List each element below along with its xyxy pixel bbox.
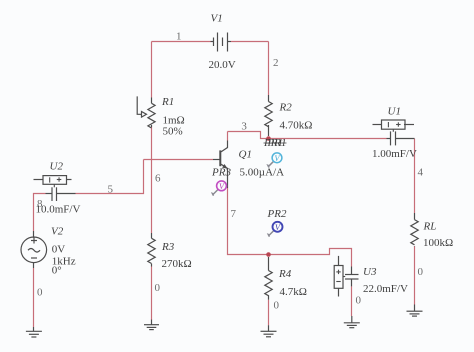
svg-text:4.70kΩ: 4.70kΩ <box>280 120 313 132</box>
svg-text:U3: U3 <box>363 266 377 278</box>
svg-text:50%: 50% <box>163 126 183 138</box>
svg-text:R1: R1 <box>161 96 174 108</box>
svg-text:RL: RL <box>423 221 437 233</box>
svg-text:PR2: PR2 <box>267 208 287 220</box>
svg-text:R2: R2 <box>279 102 293 114</box>
svg-text:4: 4 <box>418 167 424 179</box>
svg-text:20.0V: 20.0V <box>209 59 236 71</box>
svg-text:U2: U2 <box>50 161 64 173</box>
svg-text:0V: 0V <box>52 244 66 256</box>
svg-text:R4: R4 <box>278 268 292 280</box>
svg-text:7: 7 <box>231 208 237 220</box>
svg-text:10.0mF/V: 10.0mF/V <box>36 204 81 216</box>
svg-text:0: 0 <box>418 266 424 278</box>
svg-text:3: 3 <box>241 121 247 133</box>
svg-text:Q1: Q1 <box>239 149 252 161</box>
svg-text:R3: R3 <box>161 241 175 253</box>
svg-text:5.00µA/A: 5.00µA/A <box>240 167 285 179</box>
svg-text:0°: 0° <box>52 265 62 277</box>
svg-text:6: 6 <box>155 173 161 185</box>
svg-text:5: 5 <box>108 184 114 196</box>
svg-text:U1: U1 <box>388 106 401 118</box>
svg-text:0: 0 <box>274 300 280 312</box>
svg-text:V2: V2 <box>51 226 64 238</box>
svg-text:2: 2 <box>273 57 279 69</box>
svg-text:1: 1 <box>176 31 182 43</box>
svg-text:1.00mF/V: 1.00mF/V <box>372 148 417 160</box>
svg-text:0: 0 <box>155 282 161 294</box>
svg-text:0: 0 <box>37 287 43 299</box>
svg-text:V1: V1 <box>211 13 223 25</box>
svg-text:22.0mF/V: 22.0mF/V <box>363 283 408 295</box>
svg-text:270kΩ: 270kΩ <box>162 258 192 270</box>
svg-text:4.7kΩ: 4.7kΩ <box>280 286 307 298</box>
svg-text:100kΩ: 100kΩ <box>423 237 453 249</box>
svg-text:PR3: PR3 <box>211 167 231 179</box>
svg-text:0: 0 <box>356 295 362 307</box>
